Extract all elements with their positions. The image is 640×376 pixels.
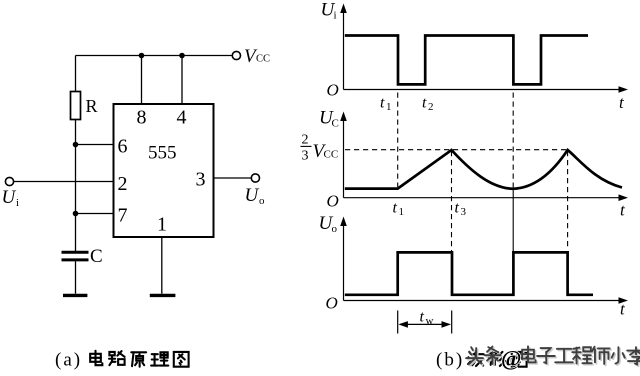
time label t1 (Ui plot) [380,95,392,114]
VCC terminal circle [232,51,240,59]
width label tw [420,309,434,328]
svg-text:3: 3 [461,206,467,218]
svg-text:4: 4 [177,107,187,129]
svg-text:t: t [420,309,425,326]
waveform UC x-axis arrowhead [619,194,629,201]
waveform Ui x-axis arrowhead [619,86,629,93]
wire node B to pin 7 [76,213,114,215]
ground (capacitor) [63,294,87,297]
svg-text:t: t [422,95,427,112]
caption text dian-lu-yuan-li-tu [90,351,188,367]
waveform Uo x-axis arrowhead [619,297,629,304]
junction node B (to pin 7) [73,211,79,217]
svg-text:1: 1 [157,214,167,236]
svg-text:@: @ [501,346,521,371]
wire pin 1 to ground [161,237,163,294]
dashed threshold level line 2/3VCC [345,149,568,151]
ground (pin 1) [150,294,176,297]
solid guide line continuation below UC minimum [512,185,514,253]
svg-text:U: U [245,185,260,206]
capacitor C1 bottom plate [62,258,89,261]
wire top VCC rail [76,55,233,57]
svg-text:3: 3 [196,169,206,191]
svg-text:O: O [327,192,339,211]
tw left delimiter line [397,311,399,334]
axis label Uo [319,213,338,235]
Uo output terminal circle [251,174,259,182]
wire node A to pin 6 [76,144,114,146]
svg-text:2: 2 [428,101,434,113]
waveform Uo y-axis [343,223,345,301]
dashed guide line at t3 peak [451,151,453,252]
Ui input terminal circle [5,177,13,185]
svg-text:3: 3 [302,149,309,164]
svg-text:(a): (a) [55,350,82,371]
waveform UC x-axis [344,197,622,199]
Ui square waveform trace [345,36,588,85]
svg-text:2: 2 [118,173,128,195]
wire pin 8 to VCC rail [141,56,143,105]
svg-text:555: 555 [148,143,177,164]
time label t2 (Ui plot) [422,95,434,114]
time label t3 (UC plot) [455,200,467,219]
waveform UC y-axis [343,118,345,198]
svg-text:C: C [332,118,339,130]
svg-text:i: i [334,10,337,22]
Uo square waveform trace [345,252,593,294]
tw dimension double arrow [400,323,449,325]
junction pin 4 on VCC rail [179,53,185,59]
axis label UC [319,108,339,130]
svg-text:O: O [326,294,338,313]
waveform Uo y-axis arrowhead [340,217,347,227]
svg-text:o: o [259,195,265,207]
threshold label 2/3 VCC [301,133,339,164]
svg-text:t: t [393,200,398,217]
wire pin 3 to output terminal [214,177,252,179]
svg-text:R: R [86,96,98,116]
net label Uo [245,185,266,207]
junction pin 8 on VCC rail [139,53,145,59]
svg-text:o: o [332,223,338,235]
wire Ui to pin 2 [14,181,114,183]
waveform Uo x-axis [344,300,622,302]
tw right delimiter line [451,311,453,334]
waveform Ui y-axis arrowhead [340,4,347,14]
UC capacitor voltage waveform trace [345,150,622,189]
caption text bo-xing-tu [468,352,527,367]
svg-text:t: t [455,200,460,217]
svg-text:CC: CC [256,54,270,65]
time label t1 (UC plot) [393,200,405,219]
svg-text:7: 7 [118,205,128,227]
dashed guide line at t1 [397,93,399,188]
resistor R1 body [71,92,81,120]
svg-text:O: O [327,81,339,100]
op-amp U1 555 timer body [114,104,214,237]
net label Ui [2,187,20,209]
svg-text:i: i [16,197,19,209]
svg-text:1: 1 [386,101,392,113]
wire capacitor to ground [75,261,77,293]
wire VCC rail to resistor top [75,56,77,93]
svg-text:8: 8 [137,107,147,129]
svg-text:1: 1 [399,206,405,218]
svg-text:6: 6 [118,136,128,158]
svg-text:CC: CC [324,149,339,161]
svg-text:t: t [380,95,385,112]
watermark toutiao at dianzi gongchengshi xiaoli [466,346,640,371]
wire node B to capacitor top [75,214,77,252]
svg-text:C: C [90,246,103,267]
dashed guide line at second peak [567,151,569,250]
axis label Ui [321,0,337,22]
svg-text:2: 2 [302,133,309,148]
waveform Ui x-axis [344,89,622,91]
dashed guide line at second falling edge [512,93,514,186]
waveform UC y-axis arrowhead [340,112,347,122]
wire resistor bottom to node A [75,120,77,145]
wire node A to node B [75,145,77,214]
wire pin 4 to VCC rail [181,56,183,105]
svg-text:(b): (b) [436,350,464,371]
waveform Ui y-axis [343,10,345,90]
svg-text:w: w [426,315,434,327]
capacitor C1 top plate [62,251,89,254]
net label VCC [244,46,270,67]
svg-text:U: U [2,187,17,208]
junction node A (R-C to pin 6) [73,142,79,148]
